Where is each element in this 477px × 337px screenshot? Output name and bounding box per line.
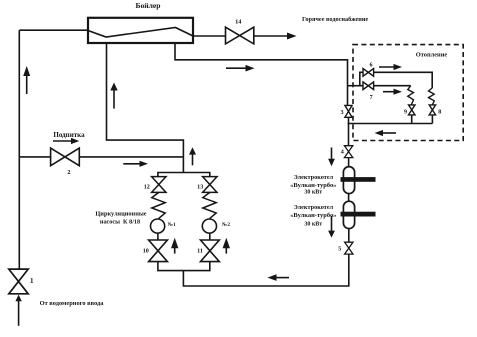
arrow right after valve 7: [383, 89, 402, 95]
wire pump 2 to valve 11: [209, 234, 211, 241]
heater bar 1: [341, 177, 376, 182]
svg-text:Подпитка: Подпитка: [53, 131, 85, 139]
radiator 8 zigzag: [429, 88, 435, 105]
electric boiler unit 1 (capsule): [343, 167, 354, 194]
wire: pumps top junction: [158, 173, 210, 177]
wire: boiler bottom-left drop: [107, 43, 184, 173]
boiler (Бойлер) vessel: [88, 18, 193, 43]
wire valve4 to boiler unit 1: [348, 158, 350, 167]
svg-text:№2: №2: [222, 222, 230, 228]
valve 12: [152, 177, 166, 193]
valve 11: [201, 240, 220, 262]
wire: pumps bottom junction: [158, 262, 210, 271]
electric boiler unit 2 (capsule): [343, 201, 354, 228]
valve 10: [149, 240, 168, 262]
valve 4: [344, 146, 352, 158]
svg-text:Отопление: Отопление: [416, 51, 448, 58]
arrow down beside valve 4: [328, 148, 335, 167]
arrow up beside valve 11: [223, 238, 230, 254]
svg-text:1: 1: [30, 277, 34, 285]
wire between boiler units: [348, 194, 350, 202]
arrow up on left riser: [23, 66, 30, 94]
wire: heating return: [348, 123, 433, 125]
flex zigzag above pump 2: [203, 192, 216, 218]
wire: boiler bottom to heating supply: [175, 43, 348, 106]
wire: make-up line left: [19, 156, 50, 158]
svg-text:30 кВт: 30 кВт: [304, 190, 322, 196]
wire: valve 7 out: [374, 85, 411, 87]
arrow up into valve 1 and inlet stem: [15, 295, 21, 326]
svg-text:12: 12: [144, 184, 150, 190]
arrow left on bottom return: [268, 274, 290, 281]
valve 3: [345, 105, 352, 117]
svg-text:2: 2: [67, 169, 70, 176]
svg-text:11: 11: [197, 249, 203, 255]
svg-text:Циркуляционные: Циркуляционные: [95, 211, 146, 218]
valve 14: [226, 27, 254, 44]
wire: main drop from valve 3 to valve 4: [348, 117, 350, 145]
valve 13: [203, 177, 217, 193]
valve 5: [345, 242, 353, 254]
wire boiler unit 2 to valve 5: [348, 229, 350, 243]
flex zigzag above pump 1: [152, 192, 165, 218]
valve 2: [51, 148, 80, 166]
wire with arrow: to hot water supply: [254, 33, 297, 40]
wire below valve 9: [411, 115, 413, 124]
svg-text:Бойлер: Бойлер: [135, 1, 160, 10]
radiator 9 zigzag: [408, 86, 414, 105]
svg-text:«Вулкан-турбо»: «Вулкан-турбо»: [290, 182, 336, 189]
arrow down beside boiler unit 2: [328, 216, 335, 238]
valve 7: [363, 82, 374, 90]
valve 9: [409, 105, 416, 115]
valve 8: [429, 105, 435, 115]
svg-text:«Вулкан-турбо»: «Вулкан-турбо»: [290, 212, 336, 219]
svg-text:5: 5: [338, 247, 341, 253]
wire: make-up line right: [79, 156, 183, 158]
svg-text:Горячее водоснабжение: Горячее водоснабжение: [302, 16, 369, 23]
pump №2 circle: [202, 219, 216, 233]
svg-text:10: 10: [143, 249, 149, 255]
wire: valve 6 out and drop to radiator 8: [374, 72, 433, 88]
pump №1 circle: [151, 219, 165, 233]
wire pump 1 to valve 10: [157, 234, 159, 241]
wire below valve 8: [431, 115, 433, 124]
arrow right on make-up line: [123, 161, 148, 167]
heater bar 2: [341, 212, 376, 217]
arrow right under Подпитка: [53, 138, 79, 144]
svg-text:9: 9: [404, 110, 407, 116]
svg-text:6: 6: [369, 63, 372, 69]
arrow left on heating return: [375, 130, 397, 136]
boiler internal coil line: [88, 28, 193, 38]
svg-text:30 кВт: 30 кВт: [304, 221, 322, 227]
svg-text:Электрокотел: Электрокотел: [293, 174, 333, 181]
svg-text:насосы К 8/18: насосы К 8/18: [100, 219, 140, 226]
arrow up beside drop: [110, 83, 117, 109]
svg-text:14: 14: [235, 19, 242, 26]
wire: hot water out of boiler: [193, 35, 225, 37]
svg-text:13: 13: [197, 184, 203, 190]
wire: left riser: [18, 30, 20, 269]
svg-text:Электрокотел: Электрокотел: [293, 204, 333, 211]
svg-text:№1: №1: [168, 222, 176, 228]
svg-text:8: 8: [438, 110, 441, 116]
arrow right after valve 6: [379, 64, 402, 70]
valve 1: [9, 269, 28, 294]
svg-text:3: 3: [340, 110, 343, 116]
wire: bottom return to pumps: [183, 254, 348, 286]
svg-text:7: 7: [370, 95, 373, 101]
arrow right on supply: [226, 65, 255, 72]
svg-text:От водомерного ввода: От водомерного ввода: [40, 300, 105, 307]
wire: top-left horizontal to boiler: [19, 29, 88, 31]
arrow up above pumps junction: [189, 147, 196, 165]
arrow up beside valve 10: [171, 238, 178, 254]
valve 6: [363, 69, 374, 77]
svg-text:4: 4: [341, 149, 344, 155]
dashed box Отопление: [353, 45, 463, 141]
wire: stub to valve 7 and riser to valve 6: [348, 85, 364, 87]
